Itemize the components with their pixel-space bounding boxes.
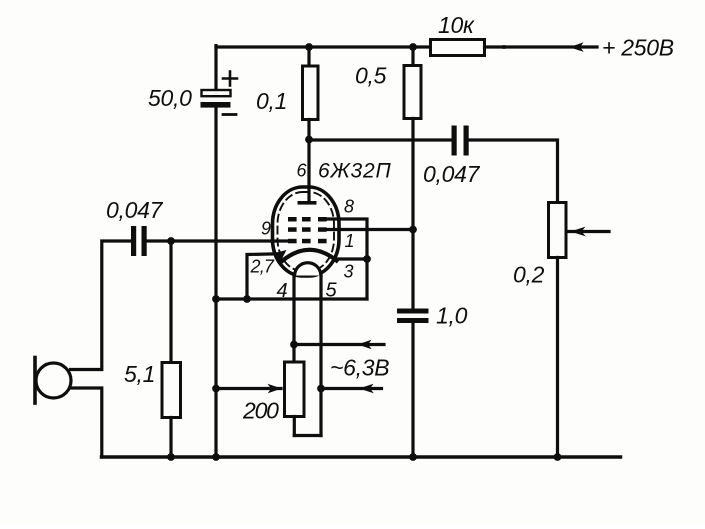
node pin 5 junction [317, 385, 325, 393]
svg-text:10к: 10к [438, 12, 475, 38]
svg-text:50,0: 50,0 [148, 85, 192, 111]
capacitor 50,0 negative plate [201, 102, 231, 108]
svg-text:1,0: 1,0 [436, 303, 468, 329]
microphone M1 [35, 358, 71, 404]
resistor 10к [431, 40, 485, 56]
svg-text:8: 8 [344, 197, 354, 217]
wire grid input [147, 239, 288, 242]
resistor 5,1 [162, 241, 181, 457]
arrow +250В supply [570, 42, 584, 52]
svg-text:200: 200 [242, 398, 279, 424]
wire anode to coupling cap [309, 138, 452, 141]
tube inner shield (dashed envelope) [278, 192, 335, 271]
svg-text:5,1: 5,1 [124, 361, 155, 387]
svg-text:3: 3 [344, 262, 354, 282]
wire +250В feed [485, 45, 598, 48]
capacitor 0,047 output [452, 126, 469, 156]
node shield ground [212, 295, 220, 303]
grid г1 (pin 9) dashes [288, 239, 327, 244]
wire 6,3В upper [294, 343, 384, 346]
grid г2 (pin 1) dashes [288, 227, 327, 232]
node small on +250В feed [501, 45, 508, 49]
wire heater pin 4 [292, 275, 295, 345]
wire coupling cap to 0,2 [469, 140, 558, 203]
svg-text:6: 6 [297, 161, 308, 181]
polarity − mark [223, 113, 236, 116]
wire top supply rail [216, 45, 431, 48]
wire ground bus [216, 297, 367, 300]
heater arc [295, 263, 322, 276]
anode lead pin 6 [307, 140, 310, 202]
svg-text:2,7: 2,7 [250, 257, 275, 277]
svg-text:0,5: 0,5 [355, 63, 387, 89]
potentiometer 0,2 [549, 203, 567, 258]
potentiometer 200 [285, 345, 305, 436]
wiper arrow 0,2 [567, 227, 609, 237]
wire pot bottom to pin 5 [294, 434, 321, 437]
arrow shield [275, 250, 287, 262]
wire suppressor pin 8 [327, 219, 368, 259]
svg-text:6Ж32П: 6Ж32П [318, 160, 392, 183]
wire 50,0 to ground rail [214, 108, 217, 458]
svg-text:0,2: 0,2 [513, 262, 545, 288]
node cathode junction [363, 255, 371, 263]
wire microphone to ground [71, 388, 102, 457]
svg-text:1: 1 [345, 231, 355, 251]
grid г3 (pin 8) dashes [288, 217, 327, 222]
anode plate bar [298, 201, 317, 205]
node pin 4 junction [290, 341, 298, 349]
wire cathode to ground bus [365, 259, 368, 299]
svg-text:9: 9 [261, 219, 271, 239]
node 0,1 top [305, 43, 313, 51]
wire shield pins 2,7 [247, 254, 279, 299]
wire wiper 200 [216, 387, 281, 390]
node screen junction [409, 226, 417, 234]
capacitor 50,0 positive plate [202, 90, 231, 96]
arrow 6,3В lower [359, 384, 374, 393]
wire screen pin 1 [327, 228, 414, 231]
resistor 0,5 [404, 47, 421, 230]
arrow wiper 200 [268, 384, 282, 393]
node 0,5 / 10k junction [409, 43, 417, 51]
polarity + mark [223, 77, 237, 80]
node 0,2 ground [554, 453, 562, 461]
resistor 0,1 [303, 47, 319, 140]
wire input cap to microphone [71, 241, 132, 370]
wire 0,2 to ground rail [556, 258, 559, 458]
svg-text:0,047: 0,047 [423, 161, 481, 187]
capacitor 0,047 input [131, 226, 147, 256]
svg-text:~6,3В: ~6,3В [330, 355, 389, 381]
wire cathode pin 3 [334, 257, 367, 260]
svg-text:+ 250В: + 250В [602, 35, 674, 61]
node wiper ground [212, 385, 220, 393]
wire 50,0 top lead [214, 46, 217, 90]
svg-text:0,1: 0,1 [256, 88, 287, 114]
capacitor 1,0 [397, 230, 429, 458]
node 50,0 ground [212, 453, 220, 461]
node 1,0 ground [409, 453, 417, 461]
wire heater pin 5 [319, 275, 322, 436]
wire 6,3В lower [321, 387, 382, 390]
cathode arc [282, 250, 337, 262]
wire ground rail [102, 455, 621, 459]
arrow 6,3В upper [358, 340, 372, 349]
tube V1 6Ж32П envelope [273, 187, 340, 276]
node shield tie [243, 295, 251, 303]
node 5,1 ground [167, 453, 175, 461]
node grid / 5,1 [167, 237, 175, 245]
svg-text:0,047: 0,047 [106, 197, 164, 223]
node anode junction [305, 136, 313, 144]
